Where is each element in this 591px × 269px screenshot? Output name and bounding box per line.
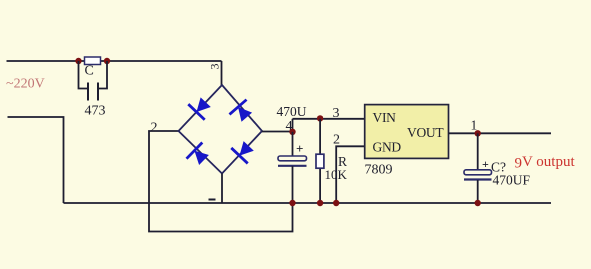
minus polarity mark xyxy=(209,199,216,201)
wire R vertical xyxy=(319,119,321,203)
svg-text:+: + xyxy=(296,141,303,156)
wire snubber right leg xyxy=(98,61,107,89)
node dot R top xyxy=(317,115,323,121)
wire VIN feed rail xyxy=(293,118,365,120)
wire output node to capacitor C2 xyxy=(477,133,479,170)
svg-text:VIN: VIN xyxy=(373,110,397,125)
node dot C1 bottom on bus xyxy=(289,200,295,206)
wire AC line1 top rail xyxy=(7,60,222,62)
wire snubber left leg xyxy=(79,61,89,89)
wire drop from top rail to bridge top corner xyxy=(221,61,223,85)
capacitor C1 negative plate xyxy=(278,165,307,167)
capacitor C2 positive plate (hollow) xyxy=(464,170,492,175)
wire GND pin to bus xyxy=(336,146,365,203)
svg-text:473: 473 xyxy=(85,104,106,119)
svg-text:GND: GND xyxy=(373,140,402,155)
svg-text:2: 2 xyxy=(333,133,340,148)
diode D4 bottom-right arm xyxy=(231,138,257,163)
capacitor C1 positive plate (hollow) xyxy=(278,156,307,161)
node junction dot left of fuse xyxy=(75,58,81,64)
svg-text:+: + xyxy=(482,157,489,171)
node dot GND on bus xyxy=(333,200,339,206)
node junction dot right of fuse xyxy=(104,58,110,64)
wire AC line2 lower input xyxy=(8,117,64,203)
wire node down to capacitor C1 xyxy=(292,132,294,156)
node dot R bottom on bus xyxy=(317,200,323,206)
wire from bridge left corner loop xyxy=(149,131,293,232)
capacitor C plate right xyxy=(97,83,99,101)
wire C2 to bus xyxy=(477,180,479,203)
svg-text:470UF: 470UF xyxy=(493,173,531,188)
wire C1 to bus xyxy=(292,166,294,203)
svg-text:1: 1 xyxy=(471,118,478,133)
diode D3 bottom-left arm xyxy=(187,143,212,169)
svg-text:C: C xyxy=(85,64,94,79)
wire bridge right corner to node xyxy=(262,131,293,133)
wire node up to VIN rail xyxy=(292,119,294,132)
svg-text:7809: 7809 xyxy=(365,163,393,178)
node dot C2 bottom on bus xyxy=(475,200,481,206)
node dot at cap C1 top xyxy=(289,129,295,135)
svg-text:2: 2 xyxy=(151,121,158,136)
resistor R body xyxy=(316,154,324,168)
wire ground bus bottom xyxy=(64,202,552,204)
capacitor C plate left xyxy=(87,83,89,101)
svg-text:9V output: 9V output xyxy=(515,154,576,172)
resistor/fuse inline on top rail xyxy=(85,57,101,65)
wire VOUT output rail xyxy=(449,132,552,134)
svg-text:470U: 470U xyxy=(277,104,307,119)
regulator U1 7809 xyxy=(365,105,449,159)
diode D1 top-left arm xyxy=(188,94,214,119)
capacitor C2 negative plate xyxy=(464,178,492,180)
node dot output xyxy=(475,130,481,136)
diode D2 top-right arm xyxy=(229,100,255,125)
bridge rectifier diamond xyxy=(179,85,263,174)
svg-text:3: 3 xyxy=(208,64,222,70)
svg-text:~220V: ~220V xyxy=(6,77,45,92)
svg-text:VOUT: VOUT xyxy=(407,125,444,140)
svg-text:3: 3 xyxy=(333,106,340,121)
wire bridge bottom corner drop xyxy=(221,174,223,204)
